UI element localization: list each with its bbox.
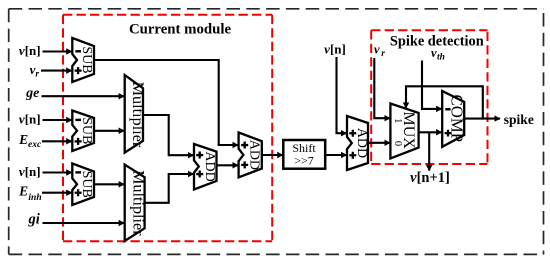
svg-text:Multiplier: Multiplier	[129, 82, 147, 148]
wire Multiplier1 output to ADD1 top input	[143, 115, 194, 155]
wire ADD1 output to ADD2 bottom input	[217, 164, 239, 166]
wire Shift block to ADD3 bottom input	[325, 154, 346, 156]
svg-text:gi: gi	[28, 211, 40, 227]
svg-text:ADD: ADD	[247, 140, 262, 170]
svg-text:exc: exc	[28, 140, 42, 150]
svg-text:E: E	[18, 184, 28, 199]
svg-text:v[n+1]: v[n+1]	[410, 170, 450, 186]
svg-text:r: r	[35, 70, 39, 80]
subtractor SUB3	[72, 164, 94, 206]
svg-text:r: r	[381, 49, 385, 59]
svg-text:1: 1	[392, 118, 403, 123]
svg-text:Multiplier: Multiplier	[129, 170, 147, 236]
svg-text:v[n]: v[n]	[324, 41, 346, 56]
Spike detection dashed box	[371, 30, 487, 164]
wire vth to COMP minus input	[422, 61, 442, 109]
svg-text:v[n]: v[n]	[19, 164, 41, 179]
svg-text:th: th	[437, 53, 445, 63]
adder ADD2	[239, 133, 262, 178]
Current module dashed box	[63, 15, 272, 242]
comparator COMP	[442, 91, 467, 147]
svg-text:v[n]: v[n]	[19, 111, 41, 126]
wire ADD3 output to MUX input 0	[368, 142, 390, 144]
wire gi to Multiplier2 bottom input	[43, 222, 125, 224]
wire SUB2 output to Multiplier1 bottom input	[94, 130, 124, 132]
wire Eexc to SUB2 plus input	[42, 140, 72, 142]
wire vr to MUX input 1	[374, 58, 390, 118]
svg-text:COMP: COMP	[448, 95, 467, 143]
multiplier M1	[125, 75, 148, 153]
svg-text:>>7: >>7	[294, 154, 314, 168]
svg-text:ge: ge	[25, 86, 39, 101]
wire Einh to SUB3 plus input	[42, 192, 72, 194]
wire COMP output to spike	[464, 118, 500, 120]
wire Multiplier2 output to ADD1 bottom input	[145, 174, 194, 203]
svg-text:spike: spike	[504, 112, 534, 127]
wire MUX output branch down to v[n+1]	[428, 132, 430, 170]
svg-text:inh: inh	[28, 193, 41, 203]
wire COMP output feedback to MUX select	[406, 86, 483, 118]
mux MUX	[390, 104, 418, 159]
svg-text:v[n]: v[n]	[19, 43, 41, 58]
svg-text:Spike detection: Spike detection	[390, 33, 484, 49]
adder ADD3	[347, 116, 369, 170]
svg-text:0: 0	[392, 141, 403, 146]
wire MUX output to COMP plus input	[419, 131, 442, 133]
wire v[n] top to ADD3 top input	[337, 57, 347, 133]
adder ADD1	[194, 144, 217, 190]
svg-text:E: E	[18, 132, 28, 147]
wire v[n] to SUB3 minus input	[43, 171, 72, 173]
svg-text:Current module: Current module	[129, 22, 232, 38]
svg-text:ADD: ADD	[202, 151, 217, 181]
wire SUB3 output to Multiplier2 top input	[94, 183, 124, 185]
wire ge to Multiplier1 top input	[42, 95, 125, 97]
multiplier M2	[125, 165, 148, 241]
wire vr to SUB1 plus input	[41, 70, 72, 72]
wire ADD2 output to Shift block	[262, 154, 283, 156]
wire v[n] to SUB1 minus input	[43, 50, 72, 52]
wire SUB1 output to ADD2 top input	[94, 60, 238, 145]
subtractor SUB1	[72, 38, 94, 82]
wire v[n] to SUB2 minus input	[43, 119, 72, 121]
subtractor SUB2	[72, 111, 94, 152]
Shift >>7 block	[283, 140, 325, 169]
svg-text:v: v	[374, 43, 380, 57]
